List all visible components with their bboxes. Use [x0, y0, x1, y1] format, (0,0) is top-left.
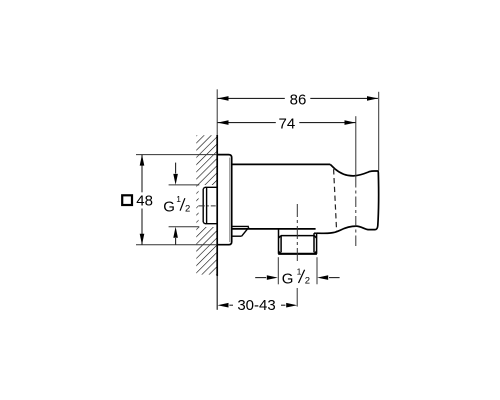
wall face line	[216, 89, 218, 135]
G1/2 inlet arrows	[175, 163, 177, 174]
G1/2 inlet extension lines	[169, 185, 200, 227]
48 extension lines	[136, 155, 217, 245]
48 dimension line	[141, 155, 143, 245]
svg-text:1: 1	[176, 194, 181, 204]
svg-text:30-43: 30-43	[237, 297, 275, 314]
30-43 right extension line	[296, 288, 298, 307]
holder head outline	[317, 164, 379, 233]
lower bracket lip	[232, 226, 249, 236]
plate face inner line	[229, 158, 231, 242]
svg-text:G: G	[163, 199, 175, 216]
escutcheon plate	[217, 155, 232, 245]
outlet boss G1/2	[279, 229, 317, 254]
dimension square 48	[122, 195, 132, 205]
dimension 86	[218, 97, 378, 99]
svg-text:G: G	[282, 270, 294, 287]
G1/2 outlet arrows	[255, 277, 266, 279]
body bottom edge	[232, 228, 316, 230]
svg-text:86: 86	[290, 91, 307, 108]
wall hatching	[196, 135, 217, 274]
inlet center line	[199, 205, 216, 207]
inlet thread G1/2 (behind wall)	[203, 187, 217, 223]
svg-text:2: 2	[305, 275, 310, 286]
G1/2 outlet extension lines	[278, 257, 317, 284]
dimension 30-43	[229, 304, 285, 306]
svg-text:48: 48	[136, 193, 153, 210]
outlet bottom edge	[278, 253, 317, 255]
svg-text:1: 1	[297, 266, 302, 276]
outlet center line	[296, 204, 298, 261]
svg-text:74: 74	[279, 116, 296, 133]
svg-text:2: 2	[185, 204, 190, 215]
body top edge	[232, 163, 331, 165]
head transition dashed line	[334, 169, 337, 231]
dimension 74	[218, 122, 356, 124]
head axis center line	[355, 116, 357, 177]
extension line right of 86	[378, 92, 380, 171]
